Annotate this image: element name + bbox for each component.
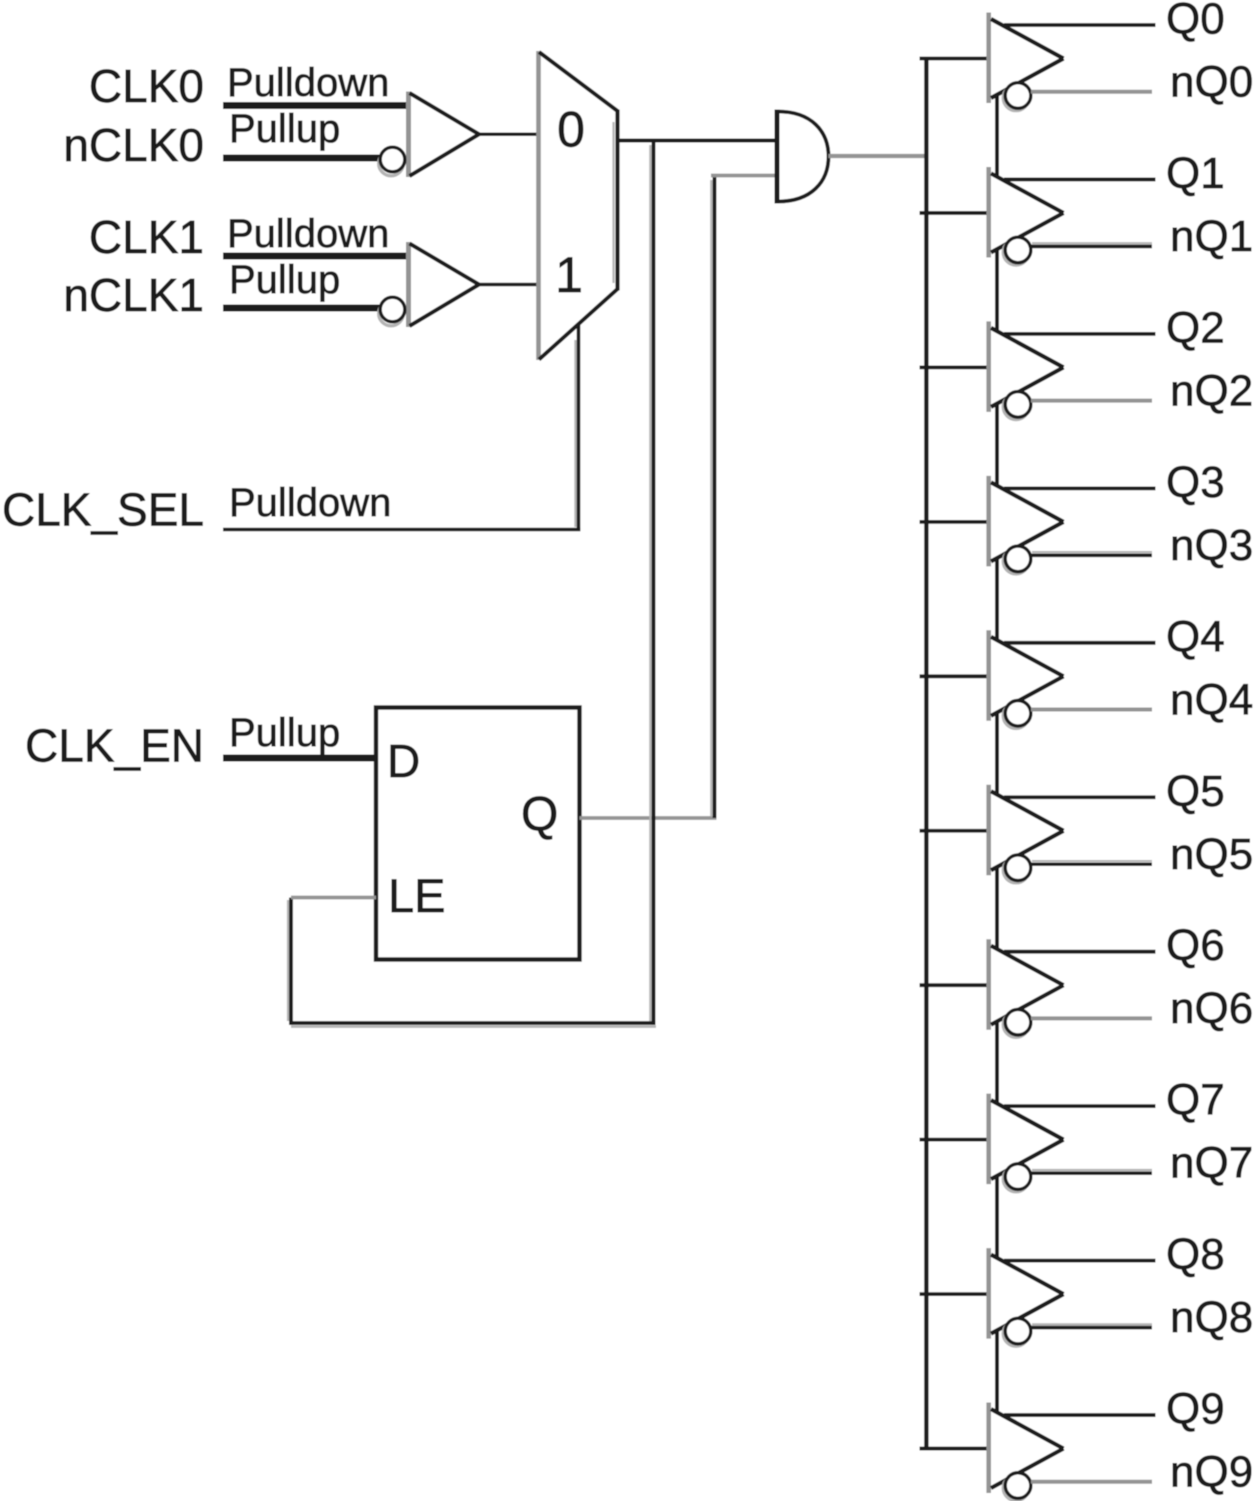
wire output nQ4 [1031,708,1152,712]
wire branch to driver 2 [920,365,991,369]
latch pin label Q [521,789,558,842]
CLK_SEL Pulldown label [229,481,391,525]
wire branch to driver 4 [920,674,991,678]
wire branch to driver 7 [920,1138,991,1142]
wire branch to driver 9 [920,1447,991,1451]
differential receiver U2 [379,242,479,327]
output driver U14 [989,1248,1064,1346]
wire output Q0 [1004,23,1156,27]
wire feedback vertical from mux output [650,141,653,1025]
wire output Q8 [1004,1259,1156,1263]
output driver U8 [989,321,1064,419]
svg-text:Pullup: Pullup [229,107,340,151]
svg-text:1: 1 [555,247,583,303]
output driver U11 [989,785,1064,883]
and-gate U5 [777,110,829,204]
svg-text:Pulldown: Pulldown [227,212,389,256]
wire gate output [829,154,929,158]
wire driver chain 5-6 [995,867,999,949]
svg-text:nQ5: nQ5 [1170,830,1253,879]
wire output Q1 [1004,178,1156,182]
svg-text:Q6: Q6 [1166,921,1225,970]
wire output Q5 [1004,795,1156,799]
node Q8 label [1166,1230,1225,1279]
svg-text:nCLK1: nCLK1 [63,269,204,321]
wire gate lower input [711,174,778,178]
svg-text:LE: LE [388,869,446,922]
node CLK0 label [89,60,204,112]
wire driver chain 6-7 [995,1021,999,1103]
svg-text:CLK0: CLK0 [89,60,204,112]
wire feedback bottom horizontal [289,1023,656,1027]
wire output Q4 [1004,641,1156,645]
svg-text:Q3: Q3 [1166,458,1225,507]
mux U3 (clock select) [539,51,618,360]
wire driver chain 1-2 [995,249,999,331]
node nQ8 label [1170,1293,1253,1342]
wire output Q9 [1004,1413,1156,1417]
node Q2 label [1166,303,1225,352]
svg-text:Q5: Q5 [1166,767,1225,816]
svg-text:Q9: Q9 [1166,1385,1225,1434]
svg-text:CLK1: CLK1 [89,211,204,263]
wire branch to driver 3 [920,520,991,524]
node Q5 label [1166,767,1225,816]
latch U4 [376,708,580,960]
wire output bus vertical [924,59,928,1449]
svg-text:D: D [387,735,420,787]
wire branch to driver 6 [920,983,991,987]
node CLK_EN label [25,720,204,772]
wire output Q2 [1004,332,1156,336]
svg-text:nQ4: nQ4 [1170,675,1253,724]
wire branch to driver 0 [920,57,991,61]
node nQ3 label [1170,521,1253,570]
svg-text:Q4: Q4 [1166,612,1225,661]
output driver U7 [989,167,1064,265]
wire output nQ5 [1031,861,1152,864]
wire mux select vertical [575,324,578,531]
nCLK1 Pullup label [229,258,340,302]
wire driver chain 7-8 [995,1176,999,1258]
wire CLK_SEL [223,528,580,531]
wire CLK1 input stub [223,253,409,260]
wire output nQ9 [1031,1480,1152,1484]
wire output nQ8 [1031,1324,1152,1327]
output driver U6 [989,13,1064,111]
wire driver chain 2-3 [995,403,999,485]
mux input label 0 [557,102,585,158]
svg-text:nQ0: nQ0 [1170,58,1253,107]
svg-text:Pullup: Pullup [229,258,340,302]
svg-text:nQ6: nQ6 [1170,984,1253,1033]
node nQ9 label [1170,1448,1253,1497]
wire driver chain 4-5 [995,712,999,794]
svg-text:Q0: Q0 [1166,0,1225,44]
svg-text:nQ2: nQ2 [1170,366,1253,415]
wire output nQ1 [1031,243,1152,246]
nCLK0 Pullup label [229,107,340,151]
node nCLK0 label [63,119,204,171]
output driver U9 [989,476,1064,574]
svg-text:nQ3: nQ3 [1170,521,1253,570]
svg-text:nQ1: nQ1 [1170,212,1253,261]
svg-text:Q: Q [521,789,558,842]
wire branch to driver 8 [920,1292,991,1296]
wire mux output to gate [618,139,778,143]
svg-text:CLK_EN: CLK_EN [25,720,204,772]
node nQ6 label [1170,984,1253,1033]
svg-text:Pullup: Pullup [229,711,340,755]
node Q6 label [1166,921,1225,970]
svg-text:Q1: Q1 [1166,149,1225,198]
wire nCLK0 input stub [223,155,382,162]
output driver U15 [989,1403,1064,1501]
CLK_EN Pullup label [229,711,340,755]
latch pin label D [387,735,420,787]
wire output nQ3 [1031,552,1152,555]
node nQ1 label [1170,212,1253,261]
node nQ5 label [1170,830,1253,879]
node Q3 label [1166,458,1225,507]
wire output nQ7 [1031,1170,1152,1173]
node nQ7 label [1170,1139,1253,1188]
wire nCLK1 input stub [223,305,382,312]
wire output nQ2 [1031,399,1152,403]
wire output Q3 [1004,486,1156,490]
svg-text:Q7: Q7 [1166,1076,1225,1125]
wire Q vertical to gate [711,176,714,818]
node nCLK1 label [63,269,204,321]
svg-text:Pulldown: Pulldown [229,481,391,525]
node CLK_SEL label [2,484,204,536]
CLK0 Pulldown label [227,61,389,105]
svg-text:nQ7: nQ7 [1170,1139,1253,1188]
svg-text:Pulldown: Pulldown [227,61,389,105]
svg-text:0: 0 [557,102,585,158]
svg-text:Q8: Q8 [1166,1230,1225,1279]
wire output nQ6 [1031,1016,1152,1020]
output driver U12 [989,939,1064,1037]
svg-text:nQ9: nQ9 [1170,1448,1253,1497]
node Q7 label [1166,1076,1225,1125]
node Q1 label [1166,149,1225,198]
output driver U13 [989,1094,1064,1192]
svg-text:nCLK0: nCLK0 [63,119,204,171]
svg-text:Q2: Q2 [1166,303,1225,352]
wire CLK_EN input stub [223,755,376,762]
output driver U10 [989,630,1064,728]
node CLK1 label [89,211,204,263]
wire branch to driver 5 [920,829,991,833]
wire output Q7 [1004,1104,1156,1108]
wire receiver U1 output to mux [479,132,540,136]
node Q0 label [1166,0,1225,44]
wire output nQ0 [1031,90,1152,94]
svg-text:nQ8: nQ8 [1170,1293,1253,1342]
wire driver chain 3-4 [995,558,999,640]
latch pin label LE [388,869,446,922]
node Q9 label [1166,1385,1225,1434]
node nQ0 label [1170,58,1253,107]
node nQ4 label [1170,675,1253,724]
wire output Q6 [1004,950,1156,954]
CLK1 Pulldown label [227,212,389,256]
wire driver chain 8-9 [995,1330,999,1412]
mux input label 1 [555,247,583,303]
wire driver chain 0-1 [995,95,999,177]
wire receiver U2 output to mux [479,283,540,287]
wire CLK0 input stub [223,102,409,109]
svg-text:CLK_SEL: CLK_SEL [2,484,204,536]
wire branch to driver 1 [920,211,991,215]
wire LE input [291,896,376,900]
wire feedback left vertical [288,898,291,1025]
node Q4 label [1166,612,1225,661]
node nQ2 label [1170,366,1253,415]
wire latch Q output [580,816,717,820]
differential receiver U1 [379,92,479,178]
